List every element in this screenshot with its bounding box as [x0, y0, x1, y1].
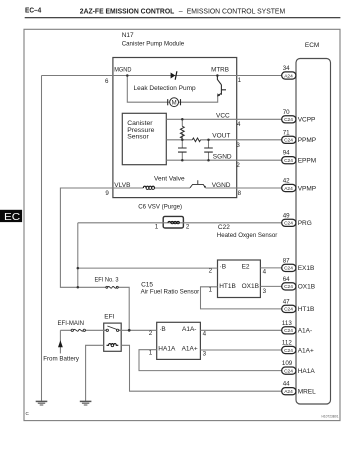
svg-text:ECM: ECM: [305, 42, 319, 49]
svg-text:49: 49: [283, 212, 290, 219]
svg-text:64: 64: [283, 276, 290, 283]
svg-text:4: 4: [263, 269, 267, 276]
svg-text:34: 34: [283, 65, 290, 72]
svg-text:C24: C24: [284, 266, 293, 272]
svg-text:C24: C24: [284, 284, 293, 290]
svg-text:2: 2: [149, 330, 153, 337]
svg-text:2: 2: [186, 223, 190, 230]
svg-text:2AZ-FE EMISSION CONTROL: 2AZ-FE EMISSION CONTROL: [80, 8, 175, 15]
svg-text:OX1B: OX1B: [242, 283, 259, 290]
svg-text:From Battery: From Battery: [43, 355, 80, 362]
svg-text:44: 44: [283, 381, 290, 388]
svg-text:C: C: [26, 411, 30, 416]
svg-text:87: 87: [283, 257, 290, 264]
svg-text:112: 112: [282, 340, 292, 347]
svg-text:N17: N17: [122, 32, 134, 39]
svg-text:C24: C24: [284, 221, 293, 227]
svg-text:·B: ·B: [159, 326, 166, 333]
svg-text:Sensor: Sensor: [127, 134, 149, 141]
svg-text:C24: C24: [284, 158, 293, 164]
svg-text:94: 94: [283, 150, 290, 157]
svg-text:EFI-MAIN: EFI-MAIN: [58, 320, 85, 327]
svg-text:Heated Oxgen Sensor: Heated Oxgen Sensor: [217, 232, 278, 239]
svg-text:Canister Pump Module: Canister Pump Module: [122, 40, 185, 47]
svg-text:C24: C24: [284, 328, 293, 334]
svg-text:EFI No. 3: EFI No. 3: [95, 277, 119, 284]
svg-text:9: 9: [105, 190, 109, 197]
svg-text:Leak Detection Pump: Leak Detection Pump: [134, 85, 197, 92]
svg-text:M: M: [172, 101, 177, 107]
svg-text:2: 2: [236, 162, 240, 169]
svg-text:MREL: MREL: [298, 389, 316, 396]
svg-text:1: 1: [149, 350, 153, 357]
svg-text:C22: C22: [218, 224, 230, 231]
svg-text:OX1B: OX1B: [298, 284, 315, 291]
svg-text:VPMP: VPMP: [298, 185, 316, 192]
svg-text:EC–4: EC–4: [25, 8, 41, 15]
svg-text:HA1A: HA1A: [158, 346, 176, 353]
svg-text:109: 109: [282, 360, 293, 367]
svg-text:113: 113: [282, 320, 292, 327]
svg-text:MTRB: MTRB: [211, 67, 229, 74]
svg-text:HT1B: HT1B: [219, 283, 236, 290]
svg-text:VCPP: VCPP: [298, 117, 316, 124]
svg-text:70: 70: [283, 109, 290, 116]
svg-text:VOUT: VOUT: [212, 133, 230, 140]
svg-text:MGND: MGND: [114, 66, 131, 73]
svg-text:3: 3: [263, 288, 267, 295]
svg-text:2: 2: [209, 267, 213, 274]
svg-text:–: –: [179, 8, 183, 15]
svg-text:PPMP: PPMP: [298, 137, 316, 144]
svg-text:A1A+: A1A+: [298, 347, 314, 354]
svg-text:A1A+: A1A+: [182, 346, 198, 353]
svg-text:4: 4: [203, 331, 207, 338]
svg-text:HA1A: HA1A: [298, 368, 316, 375]
svg-text:4: 4: [237, 121, 241, 128]
svg-text:EMISSION CONTROL SYSTEM: EMISSION CONTROL SYSTEM: [187, 8, 286, 15]
svg-text:1: 1: [155, 224, 159, 231]
svg-text:C24: C24: [284, 138, 293, 144]
svg-text:·B: ·B: [220, 264, 227, 271]
svg-text:71: 71: [283, 129, 290, 136]
svg-text:E2: E2: [242, 264, 250, 271]
svg-text:EC: EC: [4, 211, 21, 223]
svg-text:HT1B: HT1B: [298, 306, 315, 313]
svg-text:3: 3: [203, 351, 207, 358]
svg-text:SGND: SGND: [213, 154, 232, 161]
svg-text:1: 1: [209, 287, 213, 294]
svg-text:Vent Valve: Vent Valve: [154, 176, 185, 183]
svg-text:8: 8: [238, 190, 242, 197]
svg-text:C24: C24: [284, 348, 293, 354]
svg-text:C24: C24: [284, 307, 293, 313]
svg-text:EPPM: EPPM: [298, 158, 316, 165]
svg-text:A24: A24: [284, 73, 293, 79]
svg-text:VCC: VCC: [216, 113, 230, 120]
svg-text:A1A-: A1A-: [182, 326, 196, 333]
svg-text:VLVB: VLVB: [114, 182, 130, 189]
svg-text:6: 6: [105, 78, 109, 85]
svg-text:A24: A24: [284, 186, 293, 192]
svg-text:C15: C15: [141, 282, 153, 289]
svg-text:42: 42: [283, 178, 290, 185]
svg-text:PRG: PRG: [298, 220, 312, 227]
svg-text:3: 3: [236, 142, 240, 149]
svg-text:VGND: VGND: [212, 182, 231, 189]
svg-text:C6 VSV (Purge): C6 VSV (Purge): [138, 204, 182, 211]
svg-text:1: 1: [238, 77, 242, 84]
svg-text:C24: C24: [284, 117, 293, 123]
svg-text:A24: A24: [284, 389, 293, 395]
svg-text:H10723B01: H10723B01: [322, 414, 340, 419]
svg-text:EFI: EFI: [104, 313, 114, 320]
svg-text:47: 47: [283, 298, 290, 305]
svg-text:EX1B: EX1B: [298, 265, 315, 272]
svg-text:Air Fuel Ratio Sensor: Air Fuel Ratio Sensor: [141, 289, 200, 296]
svg-text:A1A-: A1A-: [298, 328, 312, 335]
svg-text:C24: C24: [284, 368, 293, 374]
